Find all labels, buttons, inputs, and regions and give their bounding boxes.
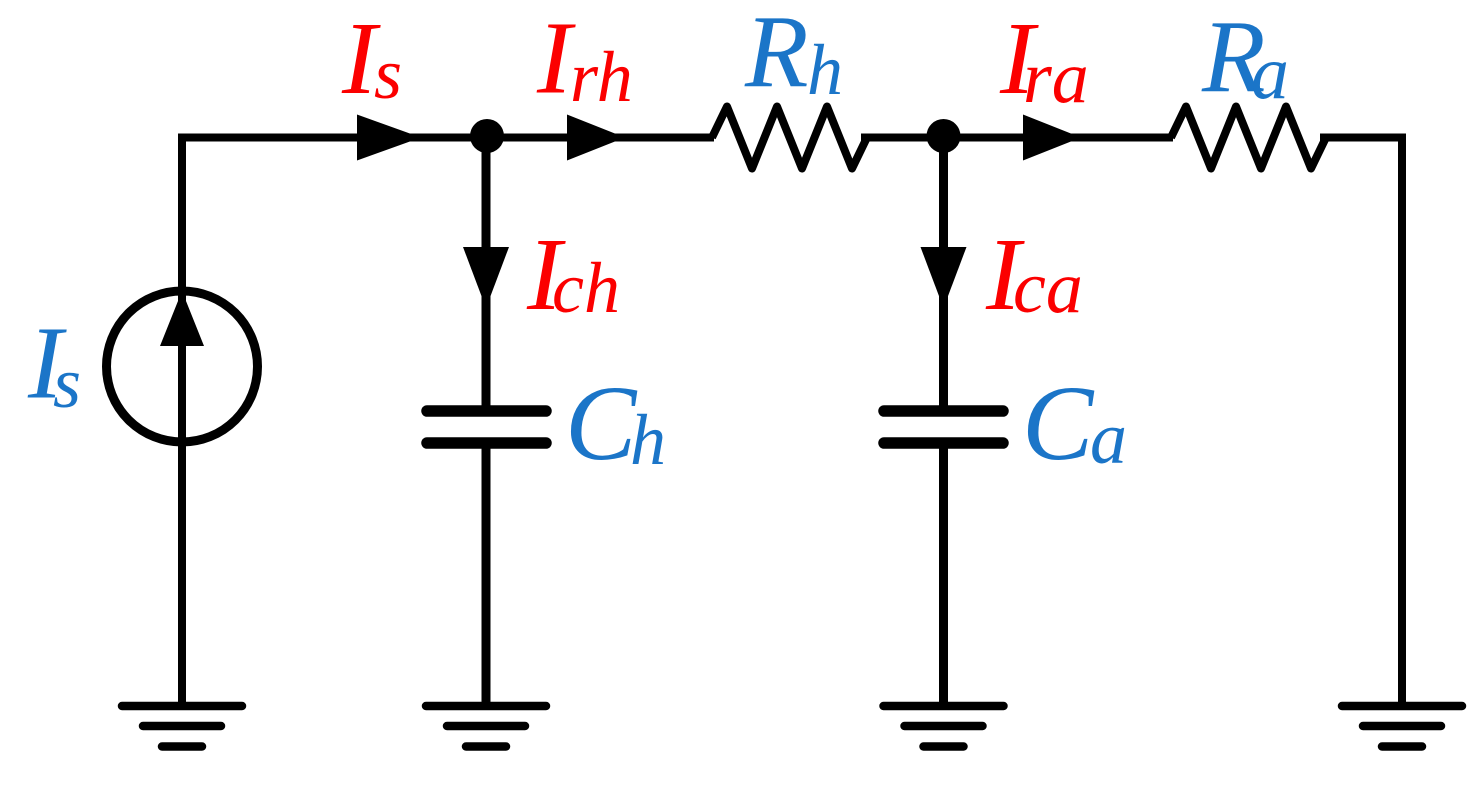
label Ca (blue, right of capacitor Ca) <box>1022 365 1127 483</box>
svg-text:C: C <box>565 365 638 483</box>
wire node A down to capacitor Ch <box>482 138 491 413</box>
wire Rh to node B <box>861 134 943 142</box>
svg-text:ra: ra <box>1023 37 1089 119</box>
current arrow Ica (points down) <box>921 247 967 308</box>
wire: left loop from ground up through source to node A <box>182 138 486 707</box>
wire node B down to capacitor Ca <box>939 138 948 413</box>
svg-text:s: s <box>53 343 81 423</box>
wire node A to resistor Rh <box>486 134 714 142</box>
svg-text:ca: ca <box>1013 247 1083 329</box>
svg-text:h: h <box>807 30 843 110</box>
ground (Ch) <box>426 706 546 747</box>
current source U1 circle <box>107 291 258 442</box>
capacitor Ca plates <box>884 411 1003 443</box>
label Is (red, above top-left wire) <box>341 1 402 116</box>
current arrow Ich (points down) <box>463 247 509 308</box>
label Rh (blue, above resistor Rh) <box>744 0 843 110</box>
current arrow Irh <box>567 115 625 161</box>
resistor Ra zigzag <box>1171 107 1326 169</box>
svg-text:h: h <box>630 400 666 480</box>
label Ica (red, right of down arrow at node B) <box>985 217 1083 332</box>
ground (right) <box>1342 706 1462 747</box>
node B junction dot <box>927 119 961 153</box>
resistor Rh zigzag <box>712 107 867 169</box>
wire Ca to ground <box>939 443 948 706</box>
ground (source) <box>122 706 242 747</box>
label Ra (blue, above resistor Ra) <box>1201 0 1289 115</box>
svg-text:a: a <box>1251 31 1289 115</box>
label Ira (red, above wire after node B) <box>999 1 1089 119</box>
svg-text:ch: ch <box>552 248 620 328</box>
svg-text:s: s <box>374 34 402 114</box>
label Ich (red, right of down arrow at node A) <box>526 217 620 332</box>
current source arrow (points up) <box>160 291 204 346</box>
current arrow Ira <box>1023 115 1081 161</box>
svg-text:R: R <box>744 0 809 110</box>
svg-text:C: C <box>1022 365 1095 483</box>
wire Ra to right corner and down to ground <box>1320 138 1402 707</box>
label Ch (blue, right of capacitor Ch) <box>565 365 666 483</box>
node A junction dot <box>470 119 504 153</box>
svg-text:rh: rh <box>570 37 633 117</box>
ground (Ca) <box>884 706 1004 747</box>
capacitor Ch plates <box>427 411 546 443</box>
wire Ch to ground <box>482 443 491 706</box>
svg-text:a: a <box>1090 398 1127 480</box>
label Is (blue, left of source) <box>27 306 81 424</box>
current arrow Is on top wire <box>357 115 421 161</box>
wire node B to resistor Ra <box>943 134 1173 142</box>
label Irh (red, above wire after node A) <box>536 1 633 118</box>
